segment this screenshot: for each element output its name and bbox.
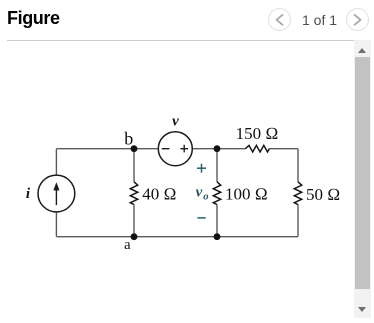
svg-text:o: o [203, 192, 208, 203]
svg-text:i: i [26, 186, 31, 202]
svg-text:a: a [124, 237, 131, 253]
svg-text:b: b [124, 129, 133, 149]
svg-text:50 Ω: 50 Ω [306, 185, 340, 204]
svg-text:v: v [172, 114, 179, 130]
svg-text:150 Ω: 150 Ω [236, 124, 279, 143]
svg-text:100 Ω: 100 Ω [225, 185, 268, 204]
svg-text:v: v [196, 185, 203, 201]
svg-text:40 Ω: 40 Ω [142, 185, 176, 204]
